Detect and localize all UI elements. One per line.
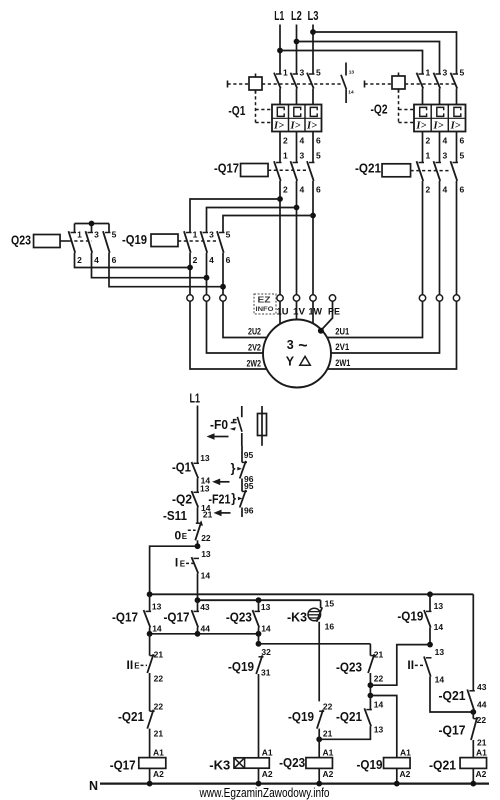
wire 1W into motor	[312, 301, 314, 323]
wire link C corner down	[369, 644, 371, 656]
svg-text:2: 2	[283, 185, 288, 195]
watermark EZ INFO box	[254, 294, 276, 314]
svg-text:44: 44	[201, 624, 211, 634]
svg-text:1W: 1W	[309, 307, 323, 318]
wire -Q2 pole 2 to trip box	[439, 89, 441, 105]
wire -Q21 pole 2 down	[422, 181, 424, 295]
wire -Q21 44 to -Q17 22	[472, 710, 474, 719]
svg-text:-Q17: -Q17	[214, 161, 239, 176]
svg-text:A2: A2	[153, 769, 164, 779]
wire II-E to -Q21 22	[149, 673, 151, 711]
wire -Q1 pole 1 to trip box	[279, 89, 281, 105]
svg-text:21: 21	[323, 729, 333, 739]
wire to -Q21 14	[369, 696, 371, 710]
svg-text:6: 6	[316, 136, 321, 146]
wire Q23 pole 2 to junction	[75, 253, 191, 268]
svg-text:-Q19: -Q19	[228, 659, 254, 674]
contact -Q17 21-22 (right)	[473, 718, 478, 720]
svg-text:A1: A1	[262, 747, 273, 757]
contactor Q23 link to contacts	[60, 240, 69, 242]
svg-text:44: 44	[477, 700, 487, 710]
svg-text:16: 16	[325, 622, 335, 632]
terminal ring 2-2 c	[220, 295, 226, 301]
svg-text:1: 1	[283, 68, 288, 78]
wire -Q19 pole 6 down	[222, 253, 224, 295]
svg-text:-Q17: -Q17	[164, 610, 190, 625]
svg-text:}: }	[231, 491, 236, 505]
svg-text:3: 3	[443, 68, 448, 78]
terminal ring 1V	[293, 295, 299, 301]
contact -Q21 22-21	[150, 710, 155, 712]
breaker -Q2 pole 3 contact	[453, 73, 459, 75]
svg-text:2: 2	[193, 255, 198, 265]
svg-text:E: E	[182, 532, 188, 541]
svg-text:22: 22	[323, 702, 333, 712]
contact -Q19 32-31	[259, 656, 264, 658]
wire 2V1	[331, 301, 440, 353]
contactor -Q17 coil	[241, 164, 268, 177]
svg-text:-Q19: -Q19	[288, 709, 314, 724]
terminal ring 1W	[310, 295, 316, 301]
svg-text:21: 21	[374, 650, 384, 660]
svg-text:22: 22	[154, 674, 164, 684]
svg-text:13: 13	[261, 602, 271, 612]
wire 2U1	[327, 301, 423, 337]
wire rail2 to -K3 contact	[320, 600, 322, 608]
junction rail2 -Q23 branch	[256, 597, 262, 603]
PE junction dot on frame	[318, 328, 324, 334]
svg-text:4: 4	[209, 255, 214, 265]
breaker -Q1 pole 3 contact	[309, 73, 315, 75]
svg-text:14: 14	[201, 570, 211, 580]
junction L3 feed	[310, 29, 316, 35]
breaker -Q1 actuator	[249, 74, 262, 94]
svg-text:95: 95	[244, 481, 254, 491]
svg-text:5: 5	[226, 230, 231, 240]
svg-text:13: 13	[201, 549, 211, 559]
wire tap W to -Q19 pole 5	[223, 216, 313, 233]
svg-text:N: N	[89, 779, 98, 793]
wire L2 feed to -Q2 pole 3	[297, 42, 440, 75]
svg-text:14: 14	[348, 90, 354, 96]
reference arrow b	[214, 510, 231, 517]
svg-text:6: 6	[112, 255, 117, 265]
wire -Q19 31 to coil -K3	[258, 674, 260, 758]
wire -Q2 to -S11	[197, 507, 199, 523]
contact -Q23 21-22	[370, 655, 375, 657]
contact -Q17 43-44	[194, 610, 200, 612]
wire rail1 to -Q19 13	[429, 594, 431, 611]
svg-text:I>: I>	[306, 120, 317, 131]
svg-text:22: 22	[477, 715, 487, 725]
svg-text:5: 5	[316, 151, 321, 161]
junction -Q19 21 / -Q21 13	[316, 736, 322, 742]
svg-text:I>: I>	[433, 120, 444, 131]
wire -Q17 pole 2 to motor 1U	[279, 181, 281, 295]
wire -Q1 pin to -Q17 pole 5	[312, 132, 314, 163]
svg-text:3: 3	[300, 151, 305, 161]
junction node after stop	[195, 543, 201, 549]
fuse alternative -F0	[258, 406, 267, 446]
svg-text:22: 22	[154, 702, 164, 712]
junction -Q19/Q23 pole 4	[204, 275, 210, 281]
svg-text:1: 1	[193, 230, 198, 240]
svg-text:INFO: INFO	[256, 306, 274, 313]
junction node after -Q19 13-14	[427, 642, 433, 648]
svg-text:1V: 1V	[293, 307, 306, 318]
svg-text:-Q23: -Q23	[279, 755, 305, 770]
svg-text:43: 43	[200, 602, 210, 612]
svg-text:4: 4	[443, 136, 448, 146]
svg-text:14: 14	[435, 675, 445, 685]
svg-text:96: 96	[244, 506, 254, 516]
wire coil -Q23 to N	[318, 768, 320, 783]
breaker -Q1 latch symbol cell 1	[277, 107, 284, 116]
breaker -Q2 latch symbol cell 1	[420, 107, 427, 116]
breaker -Q1 auxiliary contact	[341, 63, 346, 104]
wire -Q2 pin to -Q21 pole 1	[422, 132, 424, 163]
junction star bridge	[89, 221, 95, 227]
svg-text:-Q17: -Q17	[110, 758, 136, 773]
svg-text:3: 3	[300, 68, 305, 78]
link branches A-B-C	[150, 633, 259, 635]
wire -Q19 pole 4 down	[206, 253, 208, 295]
svg-text:L1: L1	[274, 9, 284, 23]
wire -Q17 pole 6 to motor 1W	[312, 181, 314, 295]
breaker -Q2 terminal tick left	[364, 81, 366, 88]
contactor -Q21 mech link dashed	[411, 170, 452, 172]
svg-text:14: 14	[152, 624, 162, 634]
wire branch B lower	[197, 628, 199, 634]
wire -Q23 22 segment	[369, 673, 371, 696]
contactor -Q17 pole contact 3-4	[293, 162, 299, 164]
svg-text:21: 21	[203, 510, 213, 520]
junction -Q23 22 lower	[368, 693, 374, 699]
wire lower junction to coil -Q19	[370, 696, 396, 758]
reference arrow -F0	[207, 433, 229, 440]
svg-text:5: 5	[460, 151, 465, 161]
svg-text:6: 6	[226, 255, 231, 265]
junction branch C second	[256, 641, 262, 647]
trip contact -F21 95-96	[242, 490, 247, 492]
svg-text:3: 3	[443, 151, 448, 161]
wire coil -Q19 to N	[396, 768, 398, 783]
wire to coil -Q21	[472, 740, 474, 758]
wire L1 feed to -Q2 pole 1	[280, 51, 423, 75]
start contact I	[194, 557, 200, 559]
wire coil -Q21 to N	[472, 768, 474, 783]
wire to 2U2	[223, 301, 267, 337]
svg-text:I>: I>	[450, 120, 461, 131]
relay coil -K3	[234, 758, 269, 768]
wire start I to rail2 (crosses rail1)	[197, 573, 199, 600]
svg-text:2: 2	[283, 136, 288, 146]
wire branch C lower	[258, 628, 260, 644]
reference arrow a	[212, 479, 229, 486]
svg-text:I>: I>	[273, 120, 284, 131]
svg-text:L1: L1	[190, 392, 201, 406]
wire to coil -Q17	[149, 729, 151, 758]
wire Q23 pole 6 to junction	[109, 253, 223, 287]
junction link B	[195, 631, 201, 637]
junction link A	[147, 631, 153, 637]
svg-text:L3: L3	[308, 9, 319, 23]
wire tap U to -Q19 pole 1	[190, 199, 280, 233]
svg-text:3: 3	[209, 230, 214, 240]
wire L1 control drop	[197, 406, 199, 464]
contactor -Q19 pole contact 5-6	[219, 232, 225, 234]
junction -Q23 22 upper	[368, 682, 374, 688]
junction rail1 -Q19 branch	[427, 591, 433, 597]
svg-text:22: 22	[374, 674, 384, 684]
wire -K3 contact down (crosses link C)	[318, 622, 320, 702]
svg-text:0: 0	[175, 528, 182, 542]
wire -Q19 pole 2 down	[189, 253, 191, 295]
junction rail1 left	[147, 591, 153, 597]
contactor -Q19 pole contact 1-2	[186, 232, 192, 234]
svg-text:95: 95	[244, 450, 254, 460]
wire -Q1 pin to -Q17 pole 3	[296, 132, 298, 163]
contact -Q1 aux (control)	[194, 462, 200, 464]
svg-text:-Q21: -Q21	[439, 688, 466, 703]
wire to coil -Q23	[318, 729, 320, 758]
svg-text:-F0: -F0	[210, 417, 228, 432]
svg-text:5: 5	[316, 68, 321, 78]
wire coil -Q17 to N	[149, 768, 151, 783]
svg-text:Q23: Q23	[11, 233, 31, 248]
trip contact -Q1 95-96	[242, 461, 247, 463]
svg-text:13: 13	[374, 725, 384, 735]
contactor -Q17 mech link dashed	[268, 169, 308, 171]
svg-text:-Q19: -Q19	[357, 757, 383, 772]
svg-text:I>: I>	[415, 120, 426, 131]
wire between -Q1 and -Q2 contacts	[197, 478, 199, 492]
breaker -Q1 latch symbol cell 2	[294, 107, 301, 116]
breaker -Q2 pole 1 contact	[419, 73, 425, 75]
wire 1V into motor	[296, 301, 298, 319]
svg-text:A2: A2	[476, 769, 487, 779]
breaker -Q1 terminal tick left	[227, 81, 229, 88]
start contact II	[426, 657, 432, 659]
junction II / -Q21 44	[470, 709, 476, 715]
breaker -Q2 latch symbol cell 2	[437, 107, 444, 116]
svg-text:1: 1	[283, 151, 288, 161]
svg-text:-Q17: -Q17	[112, 610, 138, 625]
svg-text:1U: 1U	[277, 307, 289, 318]
wire -Q2 pole 1 to trip box	[422, 89, 424, 105]
contact -Q21 14-13	[366, 709, 372, 711]
breaker -Q1 latch symbol cell 3	[310, 107, 317, 116]
trip contact -Q1 95-96 branch wire	[241, 446, 243, 462]
svg-text:A2: A2	[323, 769, 334, 779]
breaker -Q1 mechanical link dashed	[228, 83, 250, 85]
contactor -Q17 pole contact 5-6	[309, 162, 315, 164]
breaker -Q2 trip linkage dashed	[398, 90, 400, 123]
wire -Q2 pole 3 to trip box	[456, 89, 458, 105]
wire PE to motor frame	[321, 301, 332, 330]
svg-text:A2: A2	[400, 769, 411, 779]
svg-text:E: E	[134, 662, 140, 671]
wire L2 drop	[296, 25, 298, 75]
svg-text:}: }	[231, 462, 236, 476]
svg-text:A1: A1	[400, 747, 411, 757]
contactor -Q21 pole contact 3-4	[436, 162, 442, 164]
wire coil -K3 to N	[258, 768, 260, 783]
breaker alternative -F0	[230, 406, 242, 446]
svg-text:21: 21	[154, 729, 164, 739]
svg-text:-Q23: -Q23	[226, 610, 252, 625]
junction link C	[256, 631, 262, 637]
breaker -Q1 trip unit box	[272, 105, 322, 132]
wire L1 drop	[279, 25, 281, 75]
terminal ring 2-2 b	[203, 295, 209, 301]
svg-text:-Q19: -Q19	[122, 232, 147, 247]
contact -Q21 43-44	[469, 690, 475, 692]
rail N	[100, 782, 489, 784]
svg-text:2U2: 2U2	[248, 327, 261, 338]
svg-text:E: E	[180, 559, 186, 568]
wire branch B upper	[197, 600, 199, 611]
motor delta symbol	[300, 356, 311, 365]
svg-text:5: 5	[112, 230, 117, 240]
junction -Q19/Q23 pole 6	[220, 284, 226, 290]
rail1 (node before start contacts)	[150, 593, 474, 595]
breaker -Q1 pole 1 contact	[276, 73, 282, 75]
wire -Q1 pole 3 to trip box	[312, 89, 314, 105]
svg-text:14: 14	[434, 622, 444, 632]
wire bypass around start I	[150, 546, 198, 594]
svg-text:1: 1	[77, 230, 82, 240]
svg-text:A1: A1	[153, 747, 164, 757]
junction tap U	[277, 196, 283, 202]
svg-text:I>: I>	[290, 120, 301, 131]
svg-text:-Q23: -Q23	[336, 660, 362, 675]
svg-text:-S11: -S11	[163, 508, 187, 523]
wire -Q2 pin to -Q21 pole 5	[456, 132, 458, 163]
svg-text:4: 4	[300, 185, 305, 195]
wire branch C upper	[258, 600, 260, 611]
svg-text:~: ~	[298, 338, 307, 355]
timed contact -K3 15-16	[308, 607, 322, 622]
svg-text:2: 2	[77, 255, 82, 265]
svg-text:2V1: 2V1	[335, 342, 350, 353]
svg-text:I: I	[175, 556, 178, 570]
svg-text:2V2: 2V2	[248, 343, 261, 354]
wire rail1 corner to -Q21 43	[472, 594, 474, 691]
breaker -Q1 trip linkage dashed	[255, 91, 257, 123]
junction L1 feed	[277, 48, 283, 54]
coil -Q19	[384, 758, 411, 769]
wire tap V to -Q19 pole 3	[207, 208, 297, 233]
wire branch A lower	[149, 628, 151, 634]
breaker -Q2 mechanical link dashed	[365, 83, 393, 85]
wire -Q21 pole 6 down	[456, 181, 458, 295]
wire -Q21 pole 4 down	[439, 181, 441, 295]
wire between trip contacts	[241, 479, 243, 492]
contactor Q23 pole contact 5-6	[105, 232, 111, 234]
junction tap V	[294, 205, 300, 211]
breaker -Q1 pole 2 contact	[293, 73, 299, 75]
svg-text:15: 15	[325, 598, 335, 608]
wire start II down to right column	[430, 677, 473, 713]
breaker -Q2 trip unit box	[414, 105, 466, 132]
svg-text:4: 4	[443, 185, 448, 195]
terminal ring 2U1	[419, 295, 425, 301]
svg-text:43: 43	[477, 682, 487, 692]
terminal ring 2W1	[453, 295, 459, 301]
wire L3 feed to -Q2 pole 5	[313, 32, 457, 74]
svg-text:-Q21: -Q21	[355, 161, 381, 176]
wire trip branch tail	[241, 508, 243, 518]
contact -Q17 13-14	[146, 610, 152, 612]
wire -Q17 pole 4 to motor 1V	[296, 181, 298, 295]
svg-text:II: II	[407, 658, 414, 672]
wire Q23 pole 4 to junction	[92, 253, 207, 278]
switch -S11 stop contact 0	[196, 522, 202, 524]
svg-text:21: 21	[154, 650, 164, 660]
wire to 2V2	[207, 301, 264, 353]
wire link A down	[149, 634, 151, 656]
junction -Q19/Q23 pole 2	[187, 265, 193, 271]
svg-text:3: 3	[94, 230, 99, 240]
star-point bridge of Q23	[75, 223, 110, 225]
coil -Q23	[306, 758, 333, 769]
link C to -Q23 21 (crosses -K3 wire)	[259, 643, 371, 645]
contact -Q2 aux (control)	[194, 491, 200, 493]
junction N -Q17	[147, 781, 153, 787]
svg-text:-K3: -K3	[209, 758, 230, 773]
junction N -Q21	[470, 781, 476, 787]
svg-text:www.EgzaminZawodowy.info: www.EgzaminZawodowy.info	[199, 785, 330, 800]
wire -Q1 pole 2 to trip box	[296, 89, 298, 105]
svg-text:2U1: 2U1	[335, 326, 350, 337]
svg-text:21: 21	[477, 737, 487, 747]
svg-text:14: 14	[374, 700, 384, 710]
terminal ring 1U	[277, 295, 283, 301]
svg-text:A2: A2	[262, 769, 273, 779]
wire -Q2 pin to -Q21 pole 3	[439, 132, 441, 163]
svg-text:6: 6	[460, 185, 465, 195]
contact -Q19 13-14	[426, 610, 432, 612]
svg-text:L2: L2	[291, 9, 302, 23]
svg-text:13: 13	[435, 647, 445, 657]
terminal ring PE	[329, 295, 335, 301]
svg-text:1: 1	[426, 68, 431, 78]
svg-text:22: 22	[201, 533, 211, 543]
svg-text:A1: A1	[323, 747, 334, 757]
junction tap W	[310, 213, 316, 219]
contactor -Q21 pole contact 1-2	[419, 162, 425, 164]
contactor -Q21 coil	[382, 164, 411, 177]
svg-text:14: 14	[261, 624, 271, 634]
svg-text:Y: Y	[286, 355, 295, 369]
contactor Q23 coil	[34, 235, 61, 248]
contactor -Q21 pole contact 5-6	[453, 162, 459, 164]
contactor -Q19 coil	[151, 234, 178, 247]
svg-text:-Q1: -Q1	[228, 103, 245, 118]
wire -Q21 13 to junction	[319, 726, 370, 739]
terminal ring 2-2 a	[187, 295, 193, 301]
svg-text:13: 13	[200, 453, 210, 463]
junction N -Q19	[394, 781, 400, 787]
wire -Q1 pin to -Q17 pole 1	[279, 132, 281, 163]
contactor Q23 pole contact 3-4	[88, 232, 94, 234]
junction L2 feed	[294, 39, 300, 45]
svg-text:-F21: -F21	[208, 492, 230, 507]
contact -Q23 13-14	[255, 610, 261, 612]
rail2 (node after start I)	[198, 599, 321, 601]
terminal ring 2V1	[436, 295, 442, 301]
